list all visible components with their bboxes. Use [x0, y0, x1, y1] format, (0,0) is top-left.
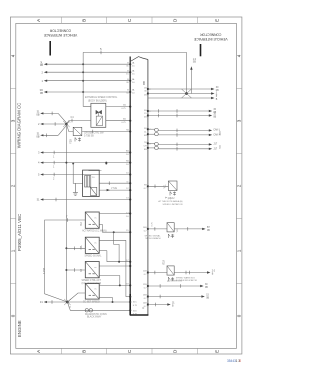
connector C1 pin labels mid left side	[122, 104, 130, 286]
relay K3 box	[167, 266, 174, 275]
svg-text:0: 0	[237, 314, 242, 317]
frame zone separators top strip	[61, 17, 197, 23]
label P2	[213, 144, 221, 151]
indicator box B2	[85, 237, 99, 253]
wire node to connector	[102, 231, 130, 262]
caption B3	[82, 279, 102, 285]
svg-text:CONNECTOR: CONNECTOR	[49, 29, 71, 33]
svg-text:2: 2	[11, 184, 16, 187]
svg-text:(BODY BUILDER): (BODY BUILDER)	[88, 100, 107, 102]
svg-text:E: E	[215, 350, 220, 353]
svg-text:0.75B: 0.75B	[43, 267, 46, 274]
connector bar J2	[200, 44, 202, 56]
frame zone separators right strip	[236, 88, 242, 283]
K2 contacts	[168, 234, 174, 238]
wire arrow to connector J2	[190, 66, 192, 93]
label R7	[206, 295, 209, 300]
sensor M1 element 2	[90, 187, 96, 195]
svg-text:m: m	[95, 217, 97, 219]
label R4	[213, 109, 216, 114]
wire R6	[148, 284, 204, 288]
svg-text:BU: BU	[80, 222, 83, 226]
wire B4 out top	[99, 284, 130, 286]
svg-text:CRUISE CTRL SW: CRUISE CTRL SW	[84, 133, 104, 135]
label R8	[172, 303, 175, 308]
wire R7	[148, 295, 205, 299]
node star right	[182, 89, 192, 98]
relay K1 contacts	[75, 138, 81, 142]
label K1 wire	[84, 133, 104, 138]
label W1	[40, 60, 44, 67]
stub S2	[40, 122, 66, 126]
svg-text:2: 2	[237, 184, 242, 187]
wire W1	[44, 63, 130, 65]
label S3	[36, 132, 40, 139]
svg-text:WIRING DIAGRAM CC: WIRING DIAGRAM CC	[16, 103, 21, 149]
wire B3 out bottom	[99, 276, 120, 286]
svg-text:B: B	[81, 19, 86, 22]
caption K2	[144, 235, 161, 241]
label R5	[213, 114, 216, 119]
svg-text:1: 1	[237, 249, 242, 252]
wire B3 feed	[65, 268, 85, 272]
wire W3	[44, 80, 130, 82]
connector C1 left line	[129, 57, 131, 316]
label vehicle interface connector left	[43, 29, 77, 38]
svg-text:SPEED CTRL ACT: SPEED CTRL ACT	[82, 279, 102, 282]
frame zone separators left strip	[10, 88, 15, 283]
zone letters top A-E	[36, 18, 219, 22]
pair P1 arrows	[209, 129, 212, 136]
svg-text:0: 0	[239, 359, 241, 363]
svg-text:AT THE NOTE AREA (A): AT THE NOTE AREA (A)	[158, 200, 182, 203]
wire top horizontal	[83, 51, 186, 53]
svg-text:0B: 0B	[207, 230, 210, 232]
stub S4	[40, 151, 130, 159]
connector C1 right pin numbers	[149, 89, 151, 145]
L wire to box B1	[45, 215, 86, 302]
inline connector pair CD	[85, 309, 92, 312]
svg-text:31D: 31D	[133, 310, 137, 312]
inner border frame	[16, 23, 237, 348]
wire to K1	[66, 124, 73, 132]
svg-text:0B: 0B	[206, 298, 209, 300]
wire R8	[148, 303, 171, 307]
stub S7	[40, 198, 130, 202]
note A text	[158, 200, 182, 206]
connector C1 bottom thick	[129, 294, 131, 315]
sensor M1 box	[83, 170, 100, 196]
label P1	[213, 129, 221, 137]
wire to K3	[148, 271, 167, 275]
indicator box B1	[85, 212, 99, 228]
wire drop to star node	[186, 52, 188, 93]
wire junction to U1	[66, 116, 91, 124]
svg-text:SPEED SIGNAL: SPEED SIGNAL	[144, 235, 161, 238]
svg-text:12B: 12B	[143, 284, 147, 286]
wire B2 out top	[99, 240, 130, 296]
document number colored	[227, 359, 241, 363]
label R3	[216, 96, 218, 101]
wire R1	[148, 88, 215, 90]
diode box DA2	[168, 181, 177, 191]
zone numbers left 4-0	[11, 54, 16, 317]
wire B3 out top	[99, 265, 130, 267]
wire B1 out top	[99, 213, 130, 215]
svg-text:MA: MA	[80, 245, 83, 249]
connector C1 pin labels upper right side	[132, 61, 136, 94]
svg-text:11B: 11B	[143, 271, 147, 273]
svg-text:1: 1	[11, 249, 16, 252]
label S1	[36, 110, 40, 117]
connector C1 right line	[147, 60, 149, 316]
connector C1 right pin dots	[147, 88, 149, 306]
svg-text:0B: 0B	[36, 112, 39, 116]
component U1 valve symbol	[96, 110, 102, 116]
svg-text:31C: 31C	[133, 302, 137, 304]
svg-text:CONNECTOR: CONNECTOR	[200, 32, 222, 36]
svg-text:SB: SB	[193, 62, 197, 64]
outer border frame	[10, 17, 242, 354]
sensor M1 element	[85, 176, 91, 188]
wire B1 out bottom	[99, 224, 102, 232]
svg-text:BB: BB	[142, 81, 146, 85]
svg-text:SPEED SIGNAL: SPEED SIGNAL	[85, 255, 103, 258]
wire K3 out	[174, 271, 210, 275]
component U1 solenoid	[96, 116, 102, 126]
connector C1 pin labels upper left side	[126, 62, 129, 94]
svg-text:0B: 0B	[213, 117, 216, 119]
svg-text:V SIG: V SIG	[111, 188, 117, 190]
DA2 contacts	[170, 192, 176, 196]
wire R5	[148, 114, 212, 118]
label R1	[216, 87, 219, 92]
wire long vertical	[66, 124, 67, 302]
svg-text:m: m	[95, 288, 97, 290]
svg-text:VEHICLE INTERFACE: VEHICLE INTERFACE	[193, 37, 227, 41]
svg-text:DA2: DA2	[170, 197, 175, 200]
svg-text:0.75B SB: 0.75B SB	[84, 135, 94, 137]
component U1 box	[91, 103, 106, 127]
wire B4 out bottom	[99, 298, 113, 304]
svg-text:SPEED LIMITATION: SPEED LIMITATION	[163, 203, 183, 206]
wire to K2	[148, 221, 167, 230]
svg-text:SPEED WARN SIG: SPEED WARN SIG	[176, 276, 195, 279]
wire K1 out	[82, 130, 130, 134]
splice tick on top wire	[100, 47, 102, 54]
connector C1 top bracket	[130, 57, 148, 62]
wire B2 out bottom	[99, 251, 130, 263]
svg-text:TACHOGRAPH: TACHOGRAPH	[145, 237, 161, 240]
wire star to connector	[67, 301, 130, 303]
wire R4	[148, 109, 212, 113]
connector C1 pin labels bottom	[133, 302, 138, 316]
label R2	[216, 92, 218, 97]
svg-text:CH: CH	[144, 145, 148, 147]
wire U1 out pin 1	[106, 106, 130, 108]
svg-text:D: D	[143, 307, 145, 310]
stub S3	[40, 126, 66, 138]
K3 contacts	[168, 277, 174, 281]
label K3 out	[212, 271, 216, 276]
relay K2 box	[167, 223, 174, 232]
svg-text:CC SET SPEED: CC SET SPEED	[83, 301, 100, 303]
frame zone separators bottom strip	[61, 348, 197, 354]
svg-text:4: 4	[11, 54, 16, 57]
svg-text:13B: 13B	[143, 295, 147, 297]
wire pair P1 twisted	[148, 128, 210, 136]
wire R2	[148, 92, 215, 94]
wire W4	[44, 91, 130, 93]
sensor caption above	[89, 170, 102, 172]
svg-text:3: 3	[237, 119, 242, 122]
node star junction 2	[64, 299, 72, 309]
relay K1 box	[73, 127, 82, 135]
zone numbers right 4-0	[237, 54, 242, 317]
svg-text:DIAGNOSTIC CONN: DIAGNOSTIC CONN	[85, 313, 107, 316]
label vehicle interface connector right	[193, 32, 227, 41]
wire K2 out	[174, 227, 205, 231]
stub S6	[40, 173, 130, 181]
ground G1	[73, 183, 78, 195]
svg-text:⊢ [A]: ⊢ [A]	[165, 196, 171, 200]
wire sensor out 2	[99, 188, 130, 191]
connector C1 left pin dots	[129, 63, 131, 311]
caption K3	[176, 276, 198, 282]
wire tap to sensor	[72, 163, 83, 184]
svg-text:10B: 10B	[143, 227, 147, 229]
pair P2 arrows	[209, 143, 212, 150]
svg-text:BLACK 6WAY: BLACK 6WAY	[87, 315, 102, 318]
stub S8	[44, 300, 68, 304]
stub S1	[40, 112, 66, 123]
node star junction 1	[63, 121, 71, 127]
svg-text:0: 0	[11, 314, 16, 317]
connector C1 bottom bar	[130, 314, 149, 316]
wire U1 out pin 2	[106, 120, 130, 122]
svg-text:0B: 0B	[36, 134, 39, 138]
label K2 out	[207, 227, 211, 232]
note text external	[85, 96, 118, 102]
wire bus vertical	[83, 52, 91, 106]
wire star to B4	[67, 293, 85, 302]
note A block	[165, 196, 171, 200]
wire R3	[148, 97, 215, 99]
svg-text:ENGINE: ENGINE	[17, 320, 22, 337]
label W4	[40, 88, 44, 95]
svg-text:VEHICLE INTERFACE: VEHICLE INTERFACE	[43, 33, 77, 37]
svg-text:CAN L: CAN L	[213, 129, 220, 132]
svg-text:3: 3	[11, 119, 16, 122]
wire star drop	[67, 302, 130, 310]
svg-text:F2B: F2B	[70, 139, 73, 144]
svg-text:EXTERNAL SPEED CONTROL: EXTERNAL SPEED CONTROL	[85, 96, 118, 99]
svg-text:0B: 0B	[40, 91, 43, 95]
stub S5	[40, 161, 130, 169]
svg-text:14B: 14B	[143, 303, 147, 305]
label R6	[205, 284, 208, 289]
svg-text:P3905_A/D11 VBC: P3905_A/D11 VBC	[17, 214, 22, 251]
connector bar J1	[49, 41, 51, 56]
svg-text:m: m	[95, 242, 97, 244]
svg-text:m: m	[95, 267, 97, 269]
svg-text:E: E	[215, 19, 220, 22]
svg-text:[A] SPEED LIM: [A] SPEED LIM	[167, 279, 182, 282]
zone letters bottom A-E	[36, 349, 219, 353]
label CD pair	[85, 313, 107, 319]
svg-text:0B: 0B	[205, 287, 208, 289]
wire pair P2 twisted	[148, 143, 210, 151]
indicator box B3	[85, 262, 99, 278]
label arrow J2	[193, 59, 197, 64]
connector C1 right pin labels	[143, 87, 148, 308]
indicator box B4	[85, 283, 99, 299]
svg-text:0B: 0B	[40, 63, 43, 67]
wire to DA2	[148, 185, 169, 189]
wire sensor out 1	[99, 163, 130, 186]
wire B2 feed	[65, 247, 85, 251]
svg-text:B: B	[81, 350, 86, 353]
svg-text:4: 4	[237, 54, 242, 57]
wire W2	[44, 71, 130, 73]
svg-text:I719: I719	[162, 260, 165, 265]
svg-text:Y11: Y11	[164, 184, 167, 189]
